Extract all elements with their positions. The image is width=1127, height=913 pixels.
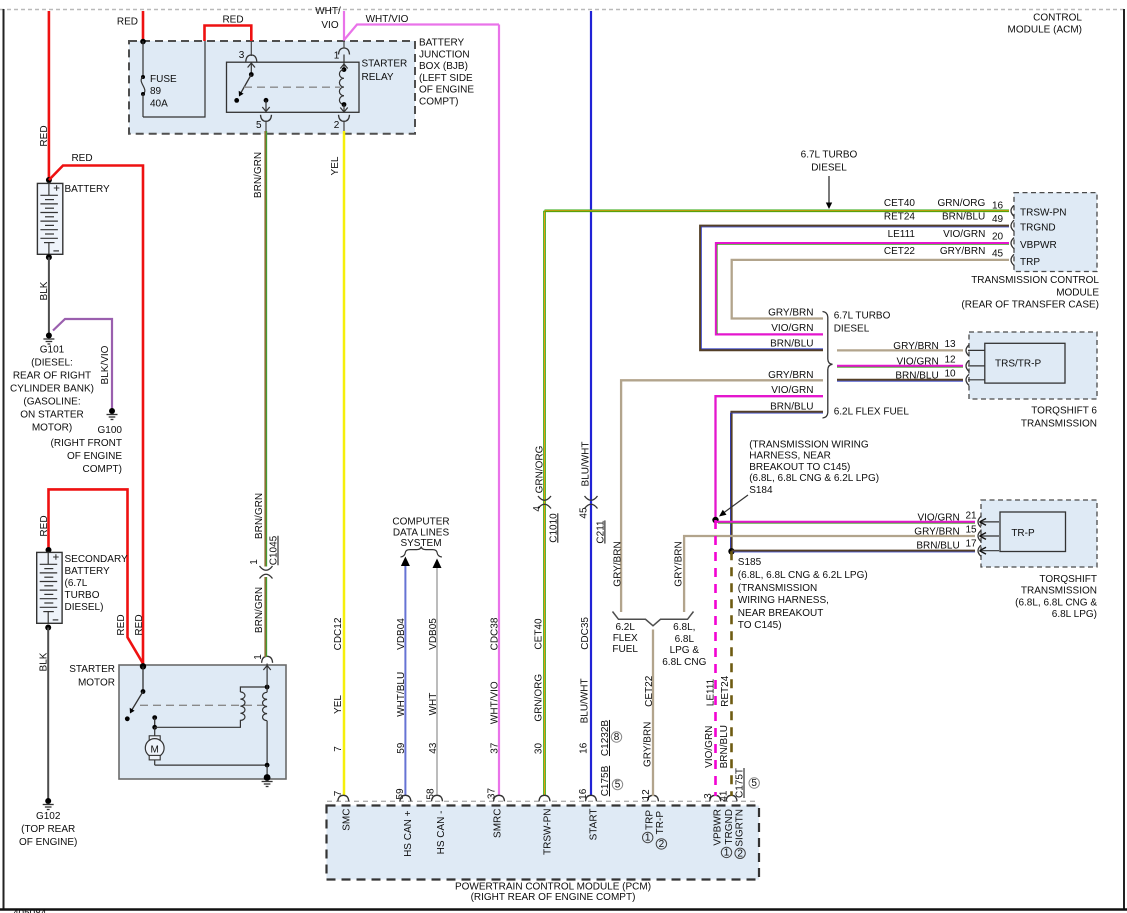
svg-text:VIO/GRN: VIO/GRN xyxy=(896,357,938,368)
svg-text:BRN/BLU: BRN/BLU xyxy=(719,725,730,768)
svg-text:WHT/VIO: WHT/VIO xyxy=(490,681,501,724)
svg-text:RET24: RET24 xyxy=(720,675,731,707)
svg-text:RED: RED xyxy=(117,17,138,28)
wire RED top left xyxy=(39,11,50,180)
connector C1045 xyxy=(249,535,280,578)
svg-text:GRY/BRN: GRY/BRN xyxy=(914,527,959,538)
svg-text:(6.8L, 6.8L CNG &: (6.8L, 6.8L CNG & xyxy=(1015,597,1097,608)
brace 6.2L/6.8L merge down xyxy=(612,612,706,669)
svg-text:HS CAN +: HS CAN + xyxy=(403,810,414,857)
svg-text:CYLINDER BANK): CYLINDER BANK) xyxy=(10,384,94,395)
svg-text:37: 37 xyxy=(490,742,501,754)
wire BRN/BLU dashed RET24 to PCM TRGND xyxy=(718,551,731,801)
svg-text:WHT/: WHT/ xyxy=(315,6,341,17)
wire WHT HS CAN- xyxy=(426,559,442,800)
wire GRY/BRN TR-P pin15 xyxy=(674,525,978,613)
label control module ACM xyxy=(1008,13,1083,36)
svg-text:1: 1 xyxy=(253,654,264,660)
svg-text:FUEL: FUEL xyxy=(612,644,638,655)
SECTION-PCM xyxy=(327,768,760,903)
svg-text:VIO/GRN: VIO/GRN xyxy=(943,229,985,240)
svg-text:(6.8L, 6.8L CNG & 6.2L LPG): (6.8L, 6.8L CNG & 6.2L LPG) xyxy=(749,473,879,484)
wire YEL relay pin2 to PCM SMC xyxy=(330,131,344,796)
starter coil right xyxy=(263,687,268,765)
svg-text:OF ENGINE: OF ENGINE xyxy=(419,85,474,96)
pin 1 connector arc at starter xyxy=(262,656,273,663)
svg-text:43: 43 xyxy=(428,742,439,754)
node secondary battery negative xyxy=(45,625,51,631)
wire RED battery to starter motor xyxy=(49,153,143,664)
pin 5 connector arc xyxy=(261,115,272,122)
SECTION-MIDDLE xyxy=(330,11,623,800)
svg-text:BRN/BLU: BRN/BLU xyxy=(770,402,813,413)
transmission control module box xyxy=(961,193,1099,311)
svg-text:G101: G101 xyxy=(40,345,65,356)
svg-text:TORQSHIFT: TORQSHIFT xyxy=(1039,574,1097,585)
relay mechanical link dashed xyxy=(244,86,340,88)
svg-text:TO C145): TO C145) xyxy=(738,620,782,631)
pin 3 lead xyxy=(250,41,252,56)
svg-text:1: 1 xyxy=(724,847,730,858)
starter mechanical link dashed xyxy=(140,704,264,706)
svg-text:10: 10 xyxy=(945,368,957,379)
svg-text:BLU/WHT: BLU/WHT xyxy=(580,678,591,723)
TR-P connector box torqshift xyxy=(978,500,1097,620)
svg-text:GRY/BRN: GRY/BRN xyxy=(642,722,653,767)
svg-text:TRANSMISSION CONTROL: TRANSMISSION CONTROL xyxy=(971,275,1099,286)
wire BLK/VIO to G100 xyxy=(53,319,112,409)
svg-text:1: 1 xyxy=(645,833,651,844)
svg-text:BATTERY: BATTERY xyxy=(65,184,111,195)
connector C175T label xyxy=(735,768,760,798)
svg-text:MODULE (ACM): MODULE (ACM) xyxy=(1008,25,1082,36)
svg-text:(GASOLINE:: (GASOLINE: xyxy=(23,397,80,408)
node starter feed junction xyxy=(140,663,146,669)
node S185 xyxy=(728,548,867,631)
svg-text:DIESEL: DIESEL xyxy=(811,163,847,174)
wire VIO/GRN to TRS pin12 xyxy=(837,355,963,368)
pin TRGND arc xyxy=(726,795,737,801)
svg-text:6.2L FLEX FUEL: 6.2L FLEX FUEL xyxy=(834,407,910,418)
svg-text:RET24: RET24 xyxy=(884,212,916,223)
wire contact to coils xyxy=(155,721,241,727)
wire fuse box bottom/right path xyxy=(143,41,205,117)
wire WHT/VIO branch to SMRC xyxy=(344,14,499,40)
svg-text:BRN/BLU: BRN/BLU xyxy=(895,370,938,381)
svg-text:6.8L: 6.8L xyxy=(675,634,695,645)
starter pin 1 lead and arrow xyxy=(263,664,270,688)
pin 2 connector arc xyxy=(339,115,350,122)
pin SMRC arc xyxy=(494,795,505,801)
svg-text:COMPT): COMPT) xyxy=(83,464,122,475)
svg-text:16: 16 xyxy=(992,201,1004,212)
svg-text:45: 45 xyxy=(992,249,1004,260)
svg-text:LPG &: LPG & xyxy=(670,645,700,656)
svg-text:SIGRTN: SIGRTN xyxy=(735,809,746,847)
pin TRSW-PN arc xyxy=(539,795,550,801)
svg-text:BRN/GRN: BRN/GRN xyxy=(254,493,265,539)
svg-text:CET40: CET40 xyxy=(533,618,544,650)
svg-text:RED: RED xyxy=(71,153,92,164)
svg-text:1: 1 xyxy=(334,51,340,62)
svg-text:(TRANSMISSION WIRING: (TRANSMISSION WIRING xyxy=(749,440,869,451)
pin HS CAN- arc xyxy=(432,795,443,801)
svg-text:TURBO: TURBO xyxy=(65,590,100,601)
node junction at BJB top xyxy=(140,39,146,45)
wire motor to ground bus xyxy=(155,764,267,766)
svg-text:40A: 40A xyxy=(150,98,168,109)
svg-text:VIO: VIO xyxy=(321,20,338,31)
svg-text:3: 3 xyxy=(239,50,245,61)
svg-text:TRSW-PN: TRSW-PN xyxy=(1020,207,1066,218)
connector C175B label xyxy=(600,765,623,796)
svg-text:OF ENGINE): OF ENGINE) xyxy=(19,837,77,848)
svg-text:21: 21 xyxy=(966,510,978,521)
svg-text:CONTROL: CONTROL xyxy=(1033,13,1082,24)
starter contact node xyxy=(152,715,157,730)
svg-text:GRN/ORG: GRN/ORG xyxy=(938,198,986,209)
svg-text:12: 12 xyxy=(945,355,957,366)
svg-text:BATTERY: BATTERY xyxy=(419,38,465,49)
svg-text:GRN/ORG: GRN/ORG xyxy=(533,674,544,722)
svg-text:SECONDARY: SECONDARY xyxy=(65,554,128,565)
svg-text:C211: C211 xyxy=(595,520,606,544)
svg-text:15: 15 xyxy=(966,525,978,536)
svg-text:GRY/BRN: GRY/BRN xyxy=(768,370,813,381)
svg-text:RED: RED xyxy=(134,614,145,635)
wire BLK battery to G101 xyxy=(39,257,50,334)
battery B1 xyxy=(37,183,62,254)
node coil top xyxy=(265,685,270,690)
svg-text:C175B: C175B xyxy=(600,765,611,796)
svg-text:NEAR BREAKOUT: NEAR BREAKOUT xyxy=(738,608,824,619)
SECTION-LEFT xyxy=(10,11,145,848)
svg-text:20: 20 xyxy=(992,232,1004,243)
svg-text:G102: G102 xyxy=(36,811,61,822)
svg-text:2: 2 xyxy=(737,848,743,859)
ground G102 xyxy=(19,798,77,848)
svg-text:5: 5 xyxy=(256,120,262,131)
svg-text:CET40: CET40 xyxy=(884,198,916,209)
node battery negative xyxy=(46,254,52,260)
svg-text:STARTER: STARTER xyxy=(69,664,115,675)
svg-text:VDB05: VDB05 xyxy=(428,618,439,650)
pin VPBWR TRGND SIGRTN names xyxy=(713,809,746,859)
svg-text:6.8L CNG: 6.8L CNG xyxy=(662,657,706,668)
relay coil xyxy=(339,55,347,113)
starter internal ground xyxy=(262,765,273,786)
ground G101 xyxy=(10,333,94,434)
svg-text:C1045: C1045 xyxy=(269,535,280,565)
pin TRP names xyxy=(643,810,667,850)
svg-text:BLK: BLK xyxy=(39,281,50,300)
svg-text:RED: RED xyxy=(222,15,243,26)
svg-text:HS CAN -: HS CAN - xyxy=(436,811,447,855)
svg-text:(RIGHT FRONT: (RIGHT FRONT xyxy=(51,438,122,449)
svg-text:3: 3 xyxy=(703,793,714,799)
svg-text:RED: RED xyxy=(116,614,127,635)
wire VIO/GRN S184 to TR-P pin21 xyxy=(716,510,978,523)
svg-text:BLK/VIO: BLK/VIO xyxy=(100,345,111,384)
pin 3 connector arc xyxy=(246,55,257,62)
brace 6.7L/6.2L merge xyxy=(823,311,910,418)
svg-text:MODULE: MODULE xyxy=(1056,288,1099,299)
svg-text:CET22: CET22 xyxy=(884,246,916,257)
svg-text:(6.7L: (6.7L xyxy=(65,578,88,589)
svg-text:VDB04: VDB04 xyxy=(396,618,407,650)
node secondary battery positive xyxy=(46,547,52,553)
svg-text:30: 30 xyxy=(533,743,544,755)
svg-text:CDC35: CDC35 xyxy=(580,617,591,650)
svg-text:BRN/BLU: BRN/BLU xyxy=(942,212,985,223)
svg-text:1: 1 xyxy=(249,559,260,565)
svg-text:VIO/GRN: VIO/GRN xyxy=(771,323,813,334)
svg-text:17: 17 xyxy=(966,539,978,550)
wire WHT/BLU HS CAN+ xyxy=(395,557,410,800)
svg-text:TRS/TR-P: TRS/TR-P xyxy=(995,358,1041,369)
svg-text:LE111: LE111 xyxy=(888,229,916,240)
svg-text:G100: G100 xyxy=(98,425,123,436)
svg-text:S184: S184 xyxy=(749,485,773,496)
svg-text:GRY/BRN: GRY/BRN xyxy=(674,541,685,586)
TRS/TR-P connector box torqshift 6 xyxy=(966,332,1097,429)
svg-text:2: 2 xyxy=(334,120,340,131)
svg-text:TRANSMISSION: TRANSMISSION xyxy=(1021,418,1097,429)
starter motor box xyxy=(69,664,286,779)
computer data lines system label xyxy=(392,517,449,558)
svg-text:BLU/WHT: BLU/WHT xyxy=(580,442,591,487)
svg-text:TORQSHIFT 6: TORQSHIFT 6 xyxy=(1031,405,1097,416)
wire BRN/BLU to TRS pin10 xyxy=(837,368,963,381)
starter relay box xyxy=(227,62,360,112)
svg-text:GRY/BRN: GRY/BRN xyxy=(893,341,938,352)
svg-text:89: 89 xyxy=(150,86,162,97)
svg-text:JUNCTION: JUNCTION xyxy=(419,49,470,60)
svg-text:4: 4 xyxy=(532,506,543,512)
svg-text:VPBWR: VPBWR xyxy=(713,809,724,846)
svg-text:TRP: TRP xyxy=(1020,257,1040,268)
svg-text:DIESEL): DIESEL) xyxy=(65,602,104,613)
svg-text:41: 41 xyxy=(718,790,729,802)
svg-text:7: 7 xyxy=(333,746,344,752)
SECTION-BJB xyxy=(117,6,499,134)
svg-text:TR-P: TR-P xyxy=(1011,528,1035,539)
svg-text:COMPT): COMPT) xyxy=(419,97,458,108)
svg-text:6.2L: 6.2L xyxy=(615,622,635,633)
pin 5 lead xyxy=(265,121,267,131)
svg-text:(TOP REAR: (TOP REAR xyxy=(21,824,75,835)
svg-text:13: 13 xyxy=(945,339,957,350)
svg-text:COMPUTER: COMPUTER xyxy=(392,517,449,528)
svg-text:FUSE: FUSE xyxy=(150,74,177,85)
svg-text:C1010: C1010 xyxy=(548,513,559,543)
pin TRP arc xyxy=(648,795,659,801)
pin SMC arc xyxy=(338,795,349,801)
wire BLU/WHT PCM START xyxy=(578,11,592,800)
svg-text:BREAKOUT TO C145): BREAKOUT TO C145) xyxy=(749,462,850,473)
svg-text:BOX (BJB): BOX (BJB) xyxy=(419,61,468,72)
svg-text:VIO/GRN: VIO/GRN xyxy=(704,726,715,768)
wire RED jumper fuse to relay pin3 xyxy=(205,15,252,42)
relay switch arm xyxy=(234,63,255,103)
svg-text:49: 49 xyxy=(992,214,1004,225)
svg-text:TR-P: TR-P xyxy=(655,811,666,835)
wire VIO/GRN dashed LE111 to PCM VPBWR xyxy=(703,520,716,799)
svg-text:45: 45 xyxy=(579,507,590,519)
svg-text:START: START xyxy=(588,809,599,841)
svg-text:TRSW-PN: TRSW-PN xyxy=(542,809,553,855)
svg-text:58: 58 xyxy=(426,788,437,800)
svg-text:CET22: CET22 xyxy=(644,675,655,707)
svg-text:BLK: BLK xyxy=(39,652,50,671)
svg-text:37: 37 xyxy=(487,788,498,800)
wire VIO/GRN 6.2L row to S184 xyxy=(716,385,824,520)
svg-text:BRN/GRN: BRN/GRN xyxy=(253,152,264,198)
svg-text:CDC12: CDC12 xyxy=(333,617,344,650)
svg-text:DATA LINES: DATA LINES xyxy=(393,527,450,538)
svg-text:6.8L LPG): 6.8L LPG) xyxy=(1052,609,1097,620)
svg-text:REAR OF RIGHT: REAR OF RIGHT xyxy=(13,371,91,382)
wire WHT/VIO relay pin1 up xyxy=(315,6,344,49)
wire GRN/ORG to TCM TRSW-PN xyxy=(545,198,1010,212)
svg-text:(LEFT SIDE: (LEFT SIDE xyxy=(419,73,473,84)
wire GRN/ORG PCM TRSW-PN xyxy=(533,211,545,796)
svg-text:GRY/BRN: GRY/BRN xyxy=(612,541,623,586)
svg-text:RELAY: RELAY xyxy=(362,72,394,83)
secondary battery (6.7L turbo diesel) xyxy=(37,552,62,623)
wire GRY/BRN to PCM TRP xyxy=(641,630,655,801)
svg-text:BRN/BLU: BRN/BLU xyxy=(770,339,813,350)
wire GRY/BRN to TRS pin13 xyxy=(837,339,963,352)
svg-text:405084: 405084 xyxy=(13,908,47,913)
fuse F89 40A xyxy=(141,41,177,117)
motor M xyxy=(145,727,164,765)
svg-text:BRN/GRN: BRN/GRN xyxy=(254,587,265,633)
svg-text:8: 8 xyxy=(614,732,620,743)
SECTION-RIGHT xyxy=(545,13,1100,802)
svg-text:WHT/VIO: WHT/VIO xyxy=(366,14,409,25)
svg-text:BRN/BLU: BRN/BLU xyxy=(916,541,959,552)
svg-text:S185: S185 xyxy=(738,557,762,568)
wire BRN/BLU 6.2L row to S185 xyxy=(730,402,823,552)
svg-text:RED: RED xyxy=(39,125,50,146)
svg-text:59: 59 xyxy=(396,742,407,754)
svg-text:BATTERY: BATTERY xyxy=(65,566,111,577)
pin VPBWR arc xyxy=(710,795,721,801)
svg-text:VIO/GRN: VIO/GRN xyxy=(917,512,959,523)
battery junction box BJB xyxy=(129,38,474,134)
svg-text:STARTER: STARTER xyxy=(362,59,408,70)
pin START arc xyxy=(586,795,597,801)
wire BLK secondary battery to G102 xyxy=(39,628,50,800)
label 6.7L turbo diesel arrow xyxy=(801,150,858,209)
svg-text:WHT: WHT xyxy=(428,693,439,716)
ground G100 xyxy=(51,408,123,475)
wire VIO/GRN LE111 to TCM VBPWR xyxy=(716,229,1009,334)
wire GRY/BRN CET22 to TCM TRP xyxy=(732,246,1009,319)
svg-text:SMRC: SMRC xyxy=(493,809,504,838)
svg-text:(6.8L, 6.8L CNG & 6.2L LPG): (6.8L, 6.8L CNG & 6.2L LPG) xyxy=(738,570,868,581)
svg-text:HARNESS, NEAR: HARNESS, NEAR xyxy=(749,451,831,462)
powertrain control module PCM box xyxy=(327,806,760,903)
SECTION-STARTER xyxy=(69,131,286,787)
svg-text:(TRANSMISSION: (TRANSMISSION xyxy=(738,583,817,594)
pin 1 connector arc xyxy=(339,48,350,55)
svg-text:6.7L TURBO: 6.7L TURBO xyxy=(834,311,891,322)
wire RED secondary battery feed xyxy=(39,489,145,663)
svg-text:M: M xyxy=(151,745,159,756)
svg-text:YEL: YEL xyxy=(330,156,341,175)
wire GRY/BRN 6.2L row xyxy=(612,370,823,612)
svg-text:TRANSMISSION: TRANSMISSION xyxy=(1021,586,1097,597)
svg-text:(DIESEL:: (DIESEL: xyxy=(31,358,73,369)
svg-text:GRY/BRN: GRY/BRN xyxy=(940,246,985,257)
pin HS CAN+ arc xyxy=(400,795,411,801)
connector C211 xyxy=(579,496,607,544)
wire BRN/BLU RET24 to TCM TRGND xyxy=(700,212,1009,351)
svg-text:WHT/BLU: WHT/BLU xyxy=(396,672,407,717)
svg-text:CDC38: CDC38 xyxy=(490,617,501,650)
svg-text:6.7L TURBO: 6.7L TURBO xyxy=(801,150,858,161)
svg-text:FLEX: FLEX xyxy=(613,633,638,644)
node battery positive xyxy=(46,177,52,183)
svg-text:LE111: LE111 xyxy=(706,678,717,706)
node S184 xyxy=(712,440,879,524)
svg-text:MOTOR: MOTOR xyxy=(78,678,115,689)
svg-text:ON STARTER: ON STARTER xyxy=(20,410,84,421)
starter solenoid switch xyxy=(125,666,146,721)
starter coil left xyxy=(240,687,267,721)
wire BRN/BLU S185 to TR-P pin17 xyxy=(732,539,978,552)
svg-text:MOTOR): MOTOR) xyxy=(32,423,72,434)
wire WHT/VIO to PCM SMRC xyxy=(487,25,501,800)
svg-text:12: 12 xyxy=(641,789,652,801)
svg-text:(RIGHT REAR OF ENGINE COMPT): (RIGHT REAR OF ENGINE COMPT) xyxy=(471,892,636,903)
svg-text:VBPWR: VBPWR xyxy=(1020,240,1057,251)
svg-text:5: 5 xyxy=(751,778,757,789)
svg-text:5: 5 xyxy=(615,780,621,791)
svg-text:VIO/GRN: VIO/GRN xyxy=(771,385,813,396)
svg-text:2: 2 xyxy=(659,839,665,850)
wire BRN/GRN relay pin5 to starter pin1 xyxy=(253,131,267,657)
svg-text:6.8L,: 6.8L, xyxy=(673,622,695,633)
node ground bus xyxy=(265,763,270,768)
svg-text:GRY/BRN: GRY/BRN xyxy=(768,308,813,319)
svg-text:C1232B: C1232B xyxy=(600,720,611,756)
svg-text:GRN/ORG: GRN/ORG xyxy=(535,445,546,493)
pin 2 lead xyxy=(343,121,345,131)
svg-text:SMC: SMC xyxy=(341,809,352,831)
svg-text:RED: RED xyxy=(39,515,50,536)
connector C1232B label xyxy=(600,720,622,756)
svg-text:DIESEL: DIESEL xyxy=(834,323,870,334)
wire RED feed to fuse 89 xyxy=(117,11,143,41)
svg-text:OF ENGINE: OF ENGINE xyxy=(67,451,122,462)
svg-text:YEL: YEL xyxy=(333,695,344,714)
svg-text:TRGND: TRGND xyxy=(724,809,735,845)
relay contact pin 5 xyxy=(262,98,269,112)
connector C1010 xyxy=(532,496,560,543)
svg-text:C175T: C175T xyxy=(735,768,746,798)
svg-text:16: 16 xyxy=(579,742,590,754)
harness line above PCM xyxy=(327,800,759,802)
svg-text:(REAR OF TRANSFER CASE): (REAR OF TRANSFER CASE) xyxy=(961,300,1099,311)
svg-text:16: 16 xyxy=(578,788,589,800)
svg-text:WIRING HARNESS,: WIRING HARNESS, xyxy=(738,595,829,606)
svg-text:TRGND: TRGND xyxy=(1020,223,1056,234)
